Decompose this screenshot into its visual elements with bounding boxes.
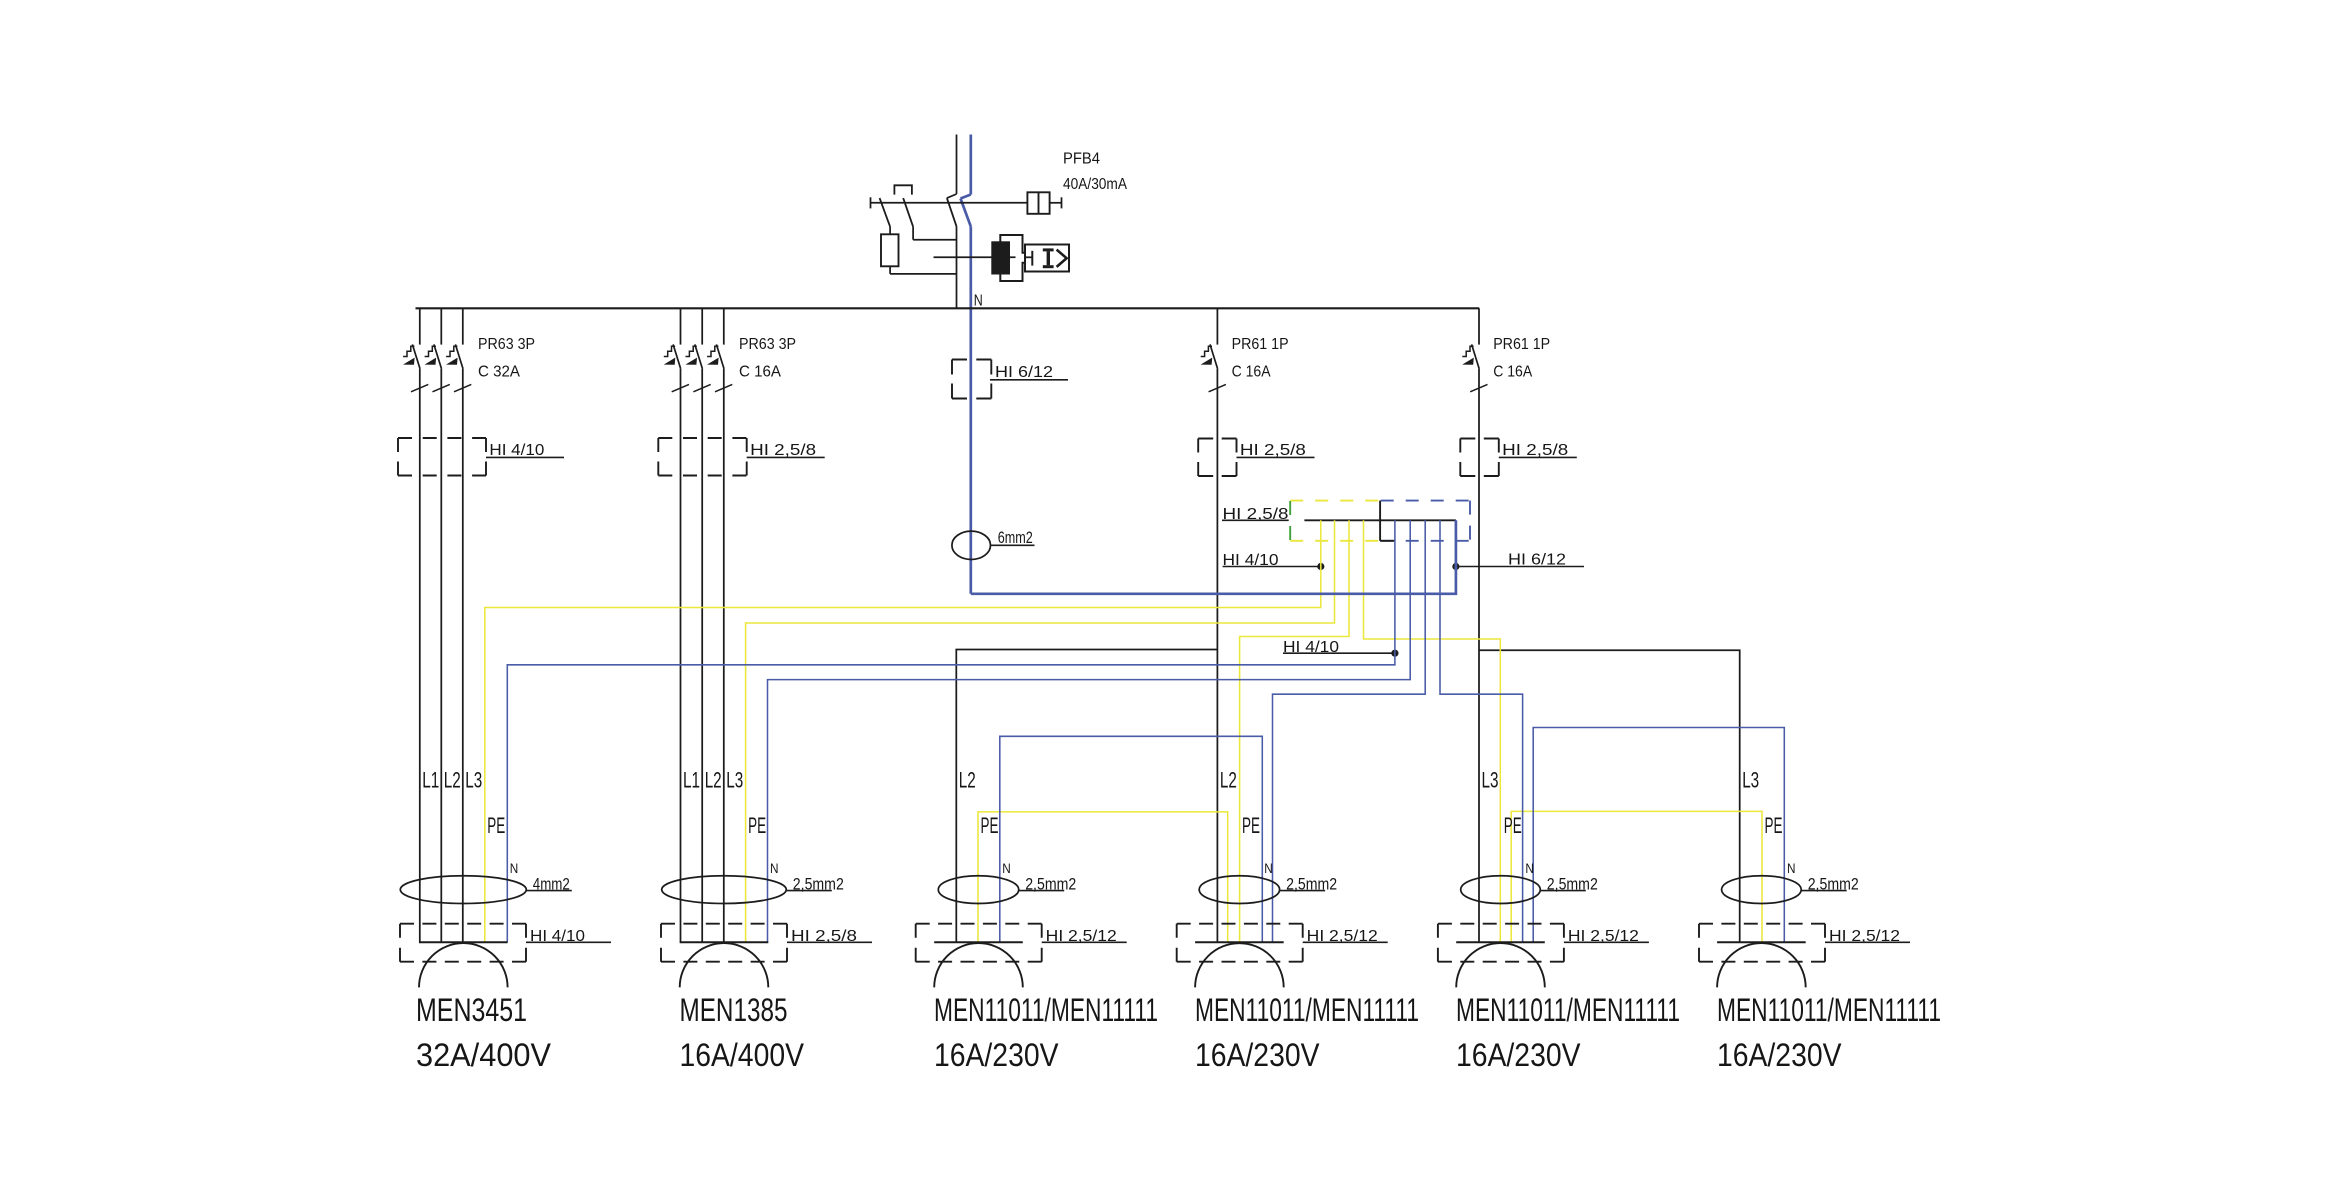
junction dot on N1 wire: [1391, 650, 1398, 657]
terminal box HI 2,5/12: [1177, 923, 1303, 925]
label HI 2,5/8 of Q4: [1499, 456, 1577, 458]
socket arc: [1195, 943, 1284, 987]
wire Q2 pole1 upper: [680, 308, 682, 344]
cable marker 6mm2 ellipse: [952, 531, 991, 559]
wire Q3 upper: [1216, 308, 1218, 344]
socket top line: [934, 941, 1023, 943]
connector X1 right edge: [1469, 501, 1471, 541]
svg-text:L3: L3: [465, 768, 482, 793]
wire PE4 connector to socket X5: [1364, 520, 1501, 942]
wire Q1 pole1 upper: [419, 308, 421, 344]
connector X1 left edge PE green: [1289, 501, 1291, 541]
socket top line: [419, 941, 508, 943]
svg-text:C 32A: C 32A: [478, 364, 521, 381]
label HI 2,5/8 of connector: [1222, 519, 1289, 521]
svg-text:16A/230V: 16A/230V: [1195, 1037, 1320, 1073]
RCD top wire: [871, 202, 1028, 204]
svg-text:MEN3451: MEN3451: [416, 992, 527, 1028]
wire N main feed thick: [971, 520, 1456, 594]
label HI 2,5/8 leader: [787, 941, 872, 943]
label HI 4/10 leader upper: [1223, 566, 1321, 568]
terminal box HI 2,5/12: [916, 923, 1042, 925]
cable size leader 2,5mm2: [1019, 890, 1064, 892]
label HI 2,5/8 of Q3: [1237, 456, 1315, 458]
label 6mm2: [991, 544, 1035, 546]
breaker position slash Q4: [1470, 384, 1487, 391]
wire Q1 pole2 lower: [440, 369, 442, 943]
svg-text:MEN11011/MEN11111: MEN11011/MEN11111: [1456, 992, 1680, 1028]
RCD phase line to bus: [956, 227, 958, 309]
breaker blade Q2.3: [716, 344, 724, 368]
label HI 2,5/12 leader: [1564, 941, 1649, 943]
socket arc: [934, 943, 1023, 987]
socket arc: [1456, 943, 1545, 987]
wire PE1 connector to socket X1: [485, 520, 1321, 942]
wire Q1 pole3 lower: [462, 369, 464, 943]
breaker trip release Q3: [1201, 346, 1212, 356]
breaker blade Q3: [1210, 344, 1218, 368]
svg-text:L3: L3: [726, 768, 743, 793]
svg-text:PR61 1P: PR61 1P: [1232, 336, 1289, 353]
RCD coil bottom wire: [889, 266, 891, 274]
svg-text:2,5mm2: 2,5mm2: [1025, 876, 1076, 894]
svg-text:MEN11011/MEN11111: MEN11011/MEN11111: [1717, 992, 1941, 1028]
socket outlet cable ellipse at MEN11011/MEN11111 x1500.5: [1461, 876, 1541, 904]
breaker blade Q1.2: [434, 344, 442, 368]
svg-text:MEN1385: MEN1385: [680, 992, 788, 1028]
breaker position slash Q3: [1209, 384, 1226, 391]
svg-text:16A/230V: 16A/230V: [934, 1037, 1059, 1073]
junction dot on N wire: [1452, 563, 1459, 570]
wire N1 connector to socket X1: [507, 520, 1395, 942]
svg-text:HI 4/10: HI 4/10: [489, 442, 544, 459]
RCD current transformer core: [991, 241, 1010, 274]
terminal box HI 2,5/12: [1438, 923, 1564, 925]
svg-text:MEN11011/MEN11111: MEN11011/MEN11111: [934, 992, 1158, 1028]
svg-text:HI 2,5/12: HI 2,5/12: [1307, 928, 1378, 945]
svg-text:HI 2,5/12: HI 2,5/12: [1829, 928, 1900, 945]
RCD coil wire to phase: [890, 273, 956, 275]
svg-text:L1: L1: [683, 768, 700, 793]
label HI 2,5/12 leader: [1825, 941, 1910, 943]
svg-text:HI 4/10: HI 4/10: [1283, 639, 1339, 656]
RCD U1 PFB4 incoming phase line: [956, 135, 958, 195]
breaker blade Q1.3: [455, 344, 463, 368]
socket outlet cable ellipse at MEN3451 x463.3: [400, 876, 526, 904]
socket outlet cable ellipse at MEN11011/MEN11111 x978.5: [938, 876, 1018, 904]
connector X1 rail stub: [1380, 540, 1395, 542]
breaker position slash Q1.3: [454, 384, 471, 391]
wire Q1 pole3 upper: [462, 308, 464, 344]
terminal box Q4: [1460, 438, 1499, 440]
relay greater-than symbol: [1057, 250, 1067, 267]
socket outlet cable ellipse at MEN1385 x724.0: [662, 876, 787, 904]
breaker blade Q4: [1472, 344, 1480, 368]
wire PE jumper socket X5 to X6: [1511, 811, 1762, 942]
right terminal tick: [1061, 197, 1063, 208]
socket arc: [419, 943, 508, 987]
relay input tick: [1025, 256, 1032, 258]
wire PE jumper socket X3 to X4: [978, 812, 1228, 942]
svg-text:PR63 3P: PR63 3P: [739, 336, 796, 353]
terminal box Q1: [398, 437, 486, 439]
socket arc: [680, 943, 769, 987]
main distribution bus wire: [416, 307, 1480, 309]
svg-text:2,5mm2: 2,5mm2: [1808, 876, 1859, 894]
svg-text:L2: L2: [705, 768, 722, 793]
label HI 2,5/12 leader: [1042, 941, 1127, 943]
cable size leader 2,5mm2: [1540, 890, 1586, 892]
RCD neutral line down: [969, 227, 972, 594]
breaker trip release Q2.1: [664, 346, 675, 356]
svg-text:N: N: [510, 861, 519, 876]
RCD differential relay box I>: [1025, 245, 1069, 272]
wire N2 connector to socket X2: [768, 520, 1411, 942]
socket outlet cable ellipse at MEN11011/MEN11111 x1761.4: [1722, 876, 1802, 904]
svg-text:L3: L3: [1482, 768, 1499, 793]
svg-text:PE: PE: [981, 813, 999, 838]
terminal box HI 2,5/12: [1699, 923, 1825, 925]
wire Q2 pole2 lower: [701, 369, 703, 943]
wire Q2 pole3 lower: [723, 369, 725, 943]
connector X1 divider: [1379, 501, 1381, 541]
cable size leader 2,5mm2: [786, 890, 832, 892]
svg-text:2,5mm2: 2,5mm2: [793, 876, 844, 894]
junction dot on PE wire: [1317, 563, 1324, 570]
svg-text:C 16A: C 16A: [1493, 364, 1533, 381]
breaker position slash Q1.2: [433, 384, 450, 391]
terminal box Q3: [1198, 438, 1236, 440]
svg-text:16A/230V: 16A/230V: [1717, 1037, 1842, 1073]
svg-text:HI 2,5/8: HI 2,5/8: [750, 442, 816, 459]
svg-text:N: N: [1264, 861, 1273, 876]
svg-text:HI 2,5/12: HI 2,5/12: [1046, 928, 1117, 945]
breaker trip release Q2.3: [707, 346, 718, 356]
wire N3 connector to socket X4: [1273, 520, 1426, 942]
svg-text:HI 6/12: HI 6/12: [1508, 552, 1566, 569]
RCD handle bracket: [894, 185, 912, 194]
svg-text:L3: L3: [1742, 768, 1759, 793]
breaker trip release Q1.1: [403, 346, 414, 356]
wire Q4 lower: [1478, 369, 1480, 943]
svg-text:HI 2,5/8: HI 2,5/8: [791, 928, 857, 945]
svg-text:PFB4: PFB4: [1063, 151, 1100, 168]
wire PE2 connector to socket X2: [746, 520, 1335, 942]
svg-text:PE: PE: [748, 813, 766, 838]
svg-text:6mm2: 6mm2: [998, 529, 1033, 547]
label HI 4/10 leader lower: [1283, 652, 1395, 654]
RCD test resistor fuse box: [1027, 192, 1049, 214]
svg-text:16A/230V: 16A/230V: [1456, 1037, 1581, 1073]
wire Q1 pole2 upper: [440, 308, 442, 344]
RCD phase switch jog: [947, 194, 957, 198]
RCD pole2 blade: [903, 198, 913, 227]
svg-text:PE: PE: [1242, 813, 1260, 838]
RCD phase switch blade: [947, 198, 957, 227]
cable size leader 2,5mm2: [1280, 890, 1326, 892]
svg-text:HI 2,5/12: HI 2,5/12: [1568, 928, 1639, 945]
svg-text:PR63 3P: PR63 3P: [478, 336, 535, 353]
svg-text:4mm2: 4mm2: [533, 876, 570, 894]
terminal box HI 2,5/8: [661, 923, 787, 925]
svg-text:N: N: [974, 293, 983, 310]
RCD incoming neutral line N: [969, 135, 972, 195]
relay I symbol: [1043, 248, 1054, 251]
label HI 6/12 leader right: [1456, 566, 1584, 568]
socket top line: [1456, 941, 1545, 943]
svg-text:PR61 1P: PR61 1P: [1493, 336, 1550, 353]
socket top line: [1717, 941, 1806, 943]
svg-text:32A/400V: 32A/400V: [416, 1037, 552, 1073]
svg-text:HI 2,5/8: HI 2,5/8: [1502, 442, 1568, 459]
wire N jumper socket X5 to X6: [1533, 728, 1784, 943]
label HI 2,5/8 of Q2: [747, 456, 825, 458]
svg-text:PE: PE: [1504, 813, 1522, 838]
RCD current transformer window: [1000, 235, 1025, 281]
terminal box HI 4/10: [400, 923, 526, 925]
cable size leader 2,5mm2: [1801, 890, 1847, 892]
connector X1 dashed box blue half: [1381, 500, 1470, 502]
svg-text:L2: L2: [444, 768, 461, 793]
RCD pole2 wire to phase: [913, 239, 956, 241]
breaker position slash Q1.1: [411, 384, 428, 391]
label HI 2,5/12 leader: [1303, 941, 1388, 943]
wire Q2 pole2 upper: [701, 308, 703, 344]
RCD top wire left terminal tick: [870, 197, 872, 208]
cable size leader 4mm2: [526, 890, 572, 892]
wire Q2 pole1 lower: [680, 369, 682, 943]
svg-text:N: N: [770, 861, 779, 876]
svg-text:PE: PE: [487, 813, 505, 838]
svg-text:N: N: [1002, 861, 1011, 876]
RCD pole1 drop wire: [889, 227, 891, 235]
breaker trip release Q1.3: [446, 346, 457, 356]
svg-text:HI 6/12: HI 6/12: [995, 364, 1053, 381]
wire Q4 upper: [1478, 308, 1480, 344]
label HI 4/10 of Q1: [486, 456, 564, 458]
breaker blade Q2.2: [695, 344, 703, 368]
label HI 4/10 leader: [526, 941, 611, 943]
breaker trip release Q1.2: [425, 346, 436, 356]
socket top line: [680, 941, 769, 943]
breaker blade Q1.1: [412, 344, 420, 368]
socket outlet cable ellipse at MEN11011/MEN11111 x1239.4: [1199, 876, 1279, 904]
socket top line: [1195, 941, 1284, 943]
connector X1 dashed box yellow half: [1290, 500, 1379, 502]
breaker position slash Q2.3: [715, 384, 732, 391]
RCD pole1 blade: [880, 198, 891, 227]
breaker trip release Q2.2: [686, 346, 697, 356]
RCD pole2 drop wire: [912, 227, 914, 240]
svg-text:PE: PE: [1765, 813, 1783, 838]
label HI 6/12: [990, 379, 1068, 381]
svg-text:C 16A: C 16A: [1232, 364, 1272, 381]
wire PE3 connector to socket X4: [1240, 520, 1349, 942]
svg-text:40A/30mA: 40A/30mA: [1063, 176, 1128, 193]
svg-text:L2: L2: [1220, 768, 1237, 793]
RCD neutral switch blade: [961, 199, 971, 227]
svg-text:HI 2,5/8: HI 2,5/8: [1223, 506, 1289, 523]
svg-text:16A/400V: 16A/400V: [680, 1037, 805, 1073]
breaker blade Q2.1: [673, 344, 681, 368]
wire L3 tap to socket X6: [1479, 650, 1740, 942]
breaker trip release Q4: [1462, 346, 1473, 356]
terminal box HI 6/12 on neutral: [952, 359, 991, 361]
svg-text:L2: L2: [959, 768, 976, 793]
RCD trip coil: [881, 234, 899, 266]
socket arc: [1717, 943, 1806, 987]
svg-text:HI 4/10: HI 4/10: [1223, 552, 1279, 569]
wire N4 connector to socket X5: [1440, 520, 1523, 942]
wire Q3 lower: [1216, 369, 1218, 943]
svg-text:2,5mm2: 2,5mm2: [1286, 876, 1337, 894]
wire Q2 pole3 upper: [723, 308, 725, 344]
wire Q1 pole1 lower: [419, 369, 421, 943]
RCD sensing wire: [934, 256, 1016, 258]
svg-text:L1: L1: [422, 768, 439, 793]
svg-text:C 16A: C 16A: [739, 364, 782, 381]
wire fuse box to right tick: [1050, 202, 1062, 204]
terminal box Q2: [658, 437, 746, 439]
connector X1 terminal rail: [1304, 519, 1456, 521]
breaker position slash Q2.1: [672, 384, 689, 391]
svg-text:N: N: [1525, 861, 1534, 876]
wire L2 tap to socket X3: [956, 650, 1217, 943]
RCD neutral switch jog: [961, 195, 971, 199]
svg-text:MEN11011/MEN11111: MEN11011/MEN11111: [1195, 992, 1419, 1028]
svg-text:HI 4/10: HI 4/10: [530, 928, 585, 945]
svg-text:N: N: [1787, 861, 1796, 876]
svg-text:HI 2,5/8: HI 2,5/8: [1240, 442, 1306, 459]
svg-text:2,5mm2: 2,5mm2: [1547, 876, 1598, 894]
wire N jumper socket X3 to X4: [1000, 736, 1263, 942]
breaker position slash Q2.2: [693, 384, 710, 391]
